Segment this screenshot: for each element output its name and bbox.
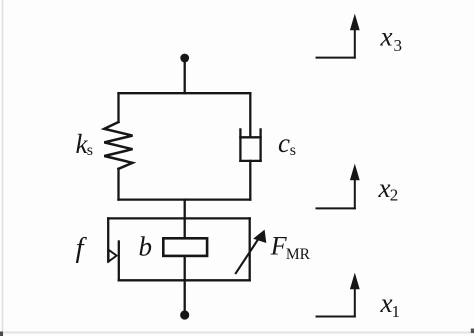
damper cs cup bottom <box>240 160 260 162</box>
wire upper box top edge <box>119 92 251 94</box>
axis x2 baseline <box>317 207 355 209</box>
force arrow FMR head <box>253 230 266 243</box>
wire lower box top edge <box>108 217 250 219</box>
bottom grey border line <box>0 332 474 334</box>
damper cs cup left wall <box>239 129 241 161</box>
wire lower box bottom edge <box>119 279 250 281</box>
wire upper box left edge lower segment <box>117 169 119 200</box>
svg-text:x: x <box>378 173 391 203</box>
node bottom (road attachment) <box>180 310 189 319</box>
axis x3 arrow shaft <box>354 28 356 58</box>
wire middle connector <box>184 200 186 219</box>
wire bottom connector <box>184 280 186 312</box>
wire upper box right edge lower segment (damper rod) <box>249 161 251 200</box>
axis x1 baseline <box>317 316 355 318</box>
axis x3 arrow head <box>350 14 360 31</box>
bottom-right corner mark <box>471 329 474 334</box>
friction contact plate <box>118 242 120 281</box>
inertia block b <box>163 238 207 256</box>
axis x3 baseline <box>317 57 355 59</box>
svg-text:s: s <box>290 142 296 159</box>
svg-text:s: s <box>87 142 93 159</box>
svg-text:MR: MR <box>286 246 311 263</box>
svg-text:b: b <box>139 231 153 261</box>
left grey border line <box>2 0 4 336</box>
damper cs cup right wall <box>259 129 261 161</box>
wire top connector <box>184 60 186 93</box>
axis x1 arrow shaft <box>354 287 356 317</box>
spring ks zigzag <box>104 122 132 169</box>
wire lower box left edge (friction rod f) <box>107 218 109 261</box>
svg-text:2: 2 <box>390 186 399 205</box>
axis x2 arrow shaft <box>354 178 356 209</box>
svg-text:3: 3 <box>394 36 403 55</box>
friction arrow head f <box>109 250 117 262</box>
wire center rod through lower box <box>184 218 186 280</box>
axis x1 arrow head <box>350 273 360 290</box>
svg-text:x: x <box>380 22 393 52</box>
bottom-left corner mark <box>0 332 3 336</box>
svg-text:1: 1 <box>392 302 401 321</box>
wire lower box right edge <box>249 218 251 280</box>
force arrow FMR shaft <box>236 238 259 274</box>
wire upper box bottom edge <box>119 198 251 200</box>
node top (sprung mass attachment) <box>180 54 189 63</box>
wire upper box left edge upper segment <box>117 93 119 122</box>
wire upper box right edge upper segment (damper rod) <box>249 93 251 137</box>
svg-text:c: c <box>278 128 290 158</box>
damper cs piston line <box>240 136 260 138</box>
axis x2 arrow head <box>350 164 360 181</box>
